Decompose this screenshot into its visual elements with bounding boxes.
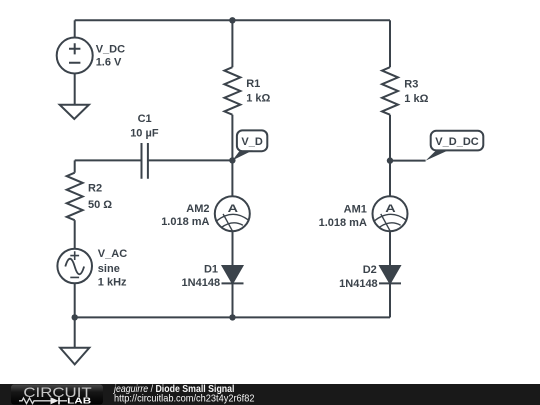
flag tail V_D_DC <box>426 150 449 161</box>
svg-text:V_AC: V_AC <box>98 248 127 260</box>
svg-text:10 µF: 10 µF <box>130 128 159 140</box>
ground (top left) <box>60 105 89 119</box>
svg-text:R3: R3 <box>404 78 418 90</box>
svg-text:V_D: V_D <box>241 136 262 148</box>
svg-text:1 kΩ: 1 kΩ <box>246 92 270 104</box>
wire node to label V_D_DC <box>390 160 426 162</box>
junction node V_D_DC <box>387 157 393 163</box>
svg-text:R2: R2 <box>88 183 102 195</box>
svg-text:R1: R1 <box>246 78 260 90</box>
wire R2 to V_AC <box>74 220 76 249</box>
resistor R1 <box>224 67 240 115</box>
svg-text:V_D_DC: V_D_DC <box>435 136 478 148</box>
svg-text:1 kHz: 1 kHz <box>98 277 127 289</box>
wire D1 to bottom <box>232 283 234 317</box>
wire V_AC to bottom node <box>74 283 76 317</box>
wire bottom horizontal <box>75 316 390 318</box>
ammeter AM1 <box>373 196 408 231</box>
voltage source V_AC <box>57 249 92 284</box>
flag label V_D_DC box <box>431 131 484 151</box>
diode D2 <box>380 266 400 283</box>
svg-text:V_DC: V_DC <box>96 43 125 55</box>
svg-text:1.018 mA: 1.018 mA <box>319 217 367 229</box>
svg-text:1N4148: 1N4148 <box>339 278 378 290</box>
svg-text:http://circuitlab.com/ch23t4y2: http://circuitlab.com/ch23t4y2r6f82 <box>114 392 255 404</box>
diode D1 <box>223 266 243 283</box>
footer bar <box>0 384 540 405</box>
svg-text:1 kΩ: 1 kΩ <box>404 93 428 105</box>
svg-text:sine: sine <box>98 263 120 275</box>
circuitlab logo badge <box>11 385 103 405</box>
wire R3 to node V_D_DC <box>389 115 391 161</box>
svg-text:C1: C1 <box>138 113 152 125</box>
logo diode <box>38 400 68 402</box>
wire bottom ground lead <box>74 317 76 347</box>
wire mid horizontal left <box>75 159 142 161</box>
junction dot bottom left <box>72 314 78 320</box>
resistor R2 <box>67 173 83 221</box>
svg-text:D1: D1 <box>204 263 218 275</box>
wire R2 top lead <box>74 160 76 172</box>
capacitor C1 <box>142 143 148 179</box>
wire R3 top lead <box>389 20 391 67</box>
flag tail V_D <box>232 150 252 160</box>
wire node to AM1 <box>389 161 391 197</box>
svg-text:1.6 V: 1.6 V <box>96 56 122 68</box>
junction dot bottom mid <box>229 314 235 320</box>
logo resistor squiggle <box>19 398 38 404</box>
wire AM1 to D2 <box>389 231 391 266</box>
wire mid horizontal right <box>148 159 233 161</box>
svg-text:D2: D2 <box>363 264 377 276</box>
svg-text:1N4148: 1N4148 <box>182 277 221 289</box>
wire AM2 to D1 <box>232 231 234 266</box>
wire R1 to node V_D <box>231 115 233 161</box>
resistor R3 <box>382 67 398 115</box>
wire V_DC to ground <box>74 74 76 105</box>
junction dot top <box>229 17 235 23</box>
wire D2 to bottom <box>389 283 391 317</box>
wire top horizontal <box>75 19 390 21</box>
svg-text:A: A <box>228 203 238 215</box>
wire R1 top lead <box>231 20 233 67</box>
svg-text:LAB: LAB <box>67 396 91 405</box>
ammeter AM2 <box>215 196 250 231</box>
svg-text:1.018 mA: 1.018 mA <box>161 216 209 228</box>
svg-text:50 Ω: 50 Ω <box>88 199 112 211</box>
wire V_D node to AM2 <box>231 160 233 196</box>
wire V_DC top lead <box>74 20 76 37</box>
svg-text:AM2: AM2 <box>186 203 209 215</box>
svg-text:A: A <box>385 203 395 215</box>
junction node V_D <box>229 157 235 163</box>
svg-text:AM1: AM1 <box>344 203 367 215</box>
ground (bottom left) <box>60 348 89 365</box>
flag label V_D box <box>237 130 267 151</box>
voltage source V_DC <box>57 38 93 74</box>
